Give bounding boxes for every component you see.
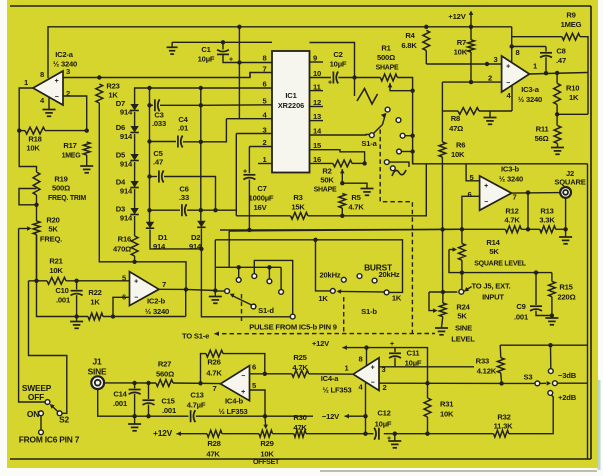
- svg-text:.001: .001: [514, 313, 529, 322]
- wire pin5 to R29 wiper: [264, 416, 267, 427]
- svg-text:16V: 16V: [254, 203, 268, 212]
- contact S1-d 4: [279, 290, 284, 295]
- wire R29-R30: [273, 433, 295, 435]
- svg-text:4.7K: 4.7K: [292, 363, 308, 372]
- svg-text:J1: J1: [93, 357, 102, 367]
- wire S1-a c4 stub: [401, 151, 412, 153]
- ground J2: [559, 236, 572, 238]
- wire R24 top: [442, 292, 444, 303]
- wire R32 right: [509, 397, 553, 434]
- svg-text:14: 14: [313, 127, 322, 136]
- dashed S1-d gang: [241, 294, 243, 324]
- wire C11 top lead: [394, 348, 396, 353]
- svg-text:2: 2: [262, 138, 266, 147]
- wire R5 bottom: [341, 208, 343, 216]
- jack J2: [560, 187, 571, 198]
- svg-text:.33: .33: [179, 193, 189, 202]
- arrowhead S2 arm: [50, 404, 55, 409]
- jack J1: [91, 376, 104, 389]
- svg-text:½ 3240: ½ 3240: [518, 95, 542, 104]
- contact S1-d 3: [267, 279, 272, 284]
- wire C8 top row: [512, 46, 546, 48]
- wire IC1 pin1 stub: [258, 163, 272, 165]
- wire R9 loop to R10/R11: [557, 113, 588, 115]
- wire R19 bottom: [36, 195, 38, 221]
- junction row-A / box left: [147, 86, 151, 90]
- svg-text:914: 914: [120, 214, 133, 223]
- svg-text:R5: R5: [351, 193, 361, 202]
- wire C1 top lead: [222, 42, 224, 49]
- wire R27 right: [173, 382, 221, 385]
- junction output / R10: [555, 71, 559, 75]
- wire R2 right: [352, 162, 365, 164]
- wire IC1 pin7 stub: [249, 73, 251, 78]
- svg-text:1K: 1K: [569, 93, 579, 102]
- svg-text:C15: C15: [161, 397, 175, 406]
- svg-text:R17: R17: [63, 141, 76, 150]
- svg-text:15K: 15K: [291, 203, 305, 212]
- wire D2 bottom to pulse contact: [201, 229, 290, 317]
- resistor R27: [156, 380, 173, 387]
- svg-text:5K: 5K: [489, 247, 499, 256]
- junction R2 wiper / R5: [340, 181, 344, 185]
- contact S1-d pulse bottom: [290, 314, 295, 319]
- wire J1 bottom row: [98, 389, 189, 416]
- resistor R11: [554, 126, 561, 144]
- resistor R18: [25, 127, 45, 134]
- wire C15 top lead: [148, 383, 150, 399]
- wire S1-a c3 stub: [405, 135, 413, 137]
- resistor R29: [259, 430, 273, 437]
- svg-text:SHAPE: SHAPE: [376, 65, 399, 72]
- wire IC3-b pin6: [462, 196, 480, 229]
- junction R21 row / R20 column: [34, 279, 38, 283]
- resistor R10: [554, 83, 561, 104]
- wire R4 bottom to IC3-a pin3 row: [425, 51, 427, 65]
- wire R8 row: [442, 110, 458, 112]
- arrowhead R1 wiper: [388, 83, 393, 87]
- wire C9 top lead: [535, 273, 537, 305]
- junction row E / C5 riser: [213, 208, 217, 212]
- svg-text:½ 3240: ½ 3240: [145, 307, 169, 316]
- diode D7: [130, 104, 138, 111]
- border frame bottom: [10, 458, 591, 460]
- svg-text:−: −: [484, 199, 488, 206]
- junction S1-d pole: [213, 288, 217, 292]
- resistor R3: [291, 212, 308, 219]
- decorative: [598, 380, 601, 470]
- wire D2 column: [200, 88, 202, 221]
- svg-text:914: 914: [120, 187, 133, 196]
- svg-text:.001: .001: [113, 399, 128, 408]
- junction row B / D2 column: [199, 103, 203, 107]
- svg-text:C9: C9: [516, 302, 525, 311]
- wire C10 row: [37, 235, 89, 317]
- svg-text:6: 6: [122, 293, 126, 302]
- junction top bus / C1 column: [237, 25, 241, 29]
- border frame right: [590, 6, 592, 459]
- wire row B left: [150, 104, 154, 106]
- svg-text:R12: R12: [505, 207, 518, 216]
- svg-text:½ 3240: ½ 3240: [499, 175, 523, 184]
- wire S1-a bus to IC3-b row: [413, 152, 588, 164]
- wire R25 right: [309, 373, 354, 375]
- svg-text:47Ω: 47Ω: [449, 124, 463, 133]
- wire R15 top: [551, 273, 553, 282]
- wire R28-R29: [222, 433, 259, 435]
- resistor R13: [540, 226, 556, 233]
- op-amp IC4-b: [221, 366, 250, 401]
- wire R13 right: [556, 228, 566, 230]
- contact S1-b 3: [357, 274, 362, 279]
- capacitor C3: [154, 99, 156, 111]
- IC1 body: [272, 51, 310, 173]
- svg-text:.01: .01: [178, 124, 189, 133]
- svg-text:10µF: 10µF: [330, 60, 347, 69]
- svg-text:−: −: [241, 373, 245, 380]
- arrowhead +12V bottom: [177, 431, 181, 436]
- wire S1-d pole stub: [215, 290, 225, 292]
- wire D1 bottom: [150, 230, 201, 249]
- wire R10 top: [556, 73, 558, 83]
- capacitor C9: [530, 305, 542, 307]
- wire row D right: [164, 177, 216, 211]
- junction -12V / pin4: [363, 414, 367, 418]
- svg-text:R7: R7: [457, 38, 466, 47]
- junction row E / D2 column: [199, 208, 203, 212]
- svg-text:6: 6: [262, 80, 266, 89]
- ground R24: [435, 327, 448, 329]
- junction R33 / pin2 row: [499, 381, 503, 385]
- svg-text:XR2206: XR2206: [278, 101, 304, 110]
- svg-text:914: 914: [120, 132, 133, 141]
- svg-text:D1: D1: [158, 233, 168, 242]
- wire R26 left loop: [201, 354, 207, 384]
- wire sweep column: [19, 229, 45, 403]
- resistor R21: [47, 277, 66, 284]
- capacitor C2: [332, 72, 334, 84]
- wire IC4-a pin4: [365, 383, 367, 434]
- wire R6 column: [441, 82, 443, 142]
- capacitor C4: [177, 136, 179, 148]
- resistor R24 trimmer: [439, 303, 446, 317]
- junction J2 / R13: [563, 227, 567, 231]
- svg-text:C1: C1: [201, 45, 211, 54]
- svg-text:C11: C11: [407, 349, 421, 358]
- wire +12V arrow stem: [470, 13, 472, 27]
- wire IC3-a pin4: [511, 86, 513, 112]
- wire C1 row: [172, 41, 272, 43]
- arrowhead -12V: [345, 414, 349, 419]
- svg-text:C10: C10: [55, 286, 68, 295]
- wire +12V to pin8 column: [471, 26, 512, 28]
- svg-text:.001: .001: [162, 406, 177, 415]
- dashed S1-b gang: [343, 297, 345, 334]
- svg-text:+12V: +12V: [153, 428, 173, 438]
- wire S1-d arm: [233, 296, 252, 305]
- wire R14 wiper loop: [449, 249, 454, 251]
- svg-text:TO J5, EXT.: TO J5, EXT.: [471, 282, 510, 291]
- svg-text:R26: R26: [207, 358, 220, 367]
- svg-text:2: 2: [488, 74, 492, 83]
- svg-text:R8: R8: [451, 114, 460, 123]
- svg-text:8: 8: [262, 54, 266, 63]
- svg-text:R22: R22: [88, 288, 101, 297]
- wire R8 ground stub: [489, 111, 491, 117]
- wire IC4-b pin6 row: [250, 373, 292, 375]
- junction C1 top: [221, 40, 225, 44]
- resistor R25: [292, 370, 309, 377]
- svg-text:3: 3: [66, 67, 70, 76]
- svg-text:D4: D4: [116, 178, 126, 187]
- svg-text:4.12K: 4.12K: [477, 367, 497, 376]
- svg-text:C2: C2: [333, 50, 342, 59]
- junction C7 / long row: [247, 228, 251, 232]
- svg-text:S1-b: S1-b: [361, 307, 377, 316]
- svg-text:914: 914: [120, 160, 133, 169]
- junction J5 row / R24 column: [441, 290, 445, 294]
- wire C9 bottom lead: [536, 311, 552, 316]
- wire C15 bottom lead: [148, 405, 150, 417]
- wire IC2-b pin6: [113, 297, 130, 316]
- svg-text:R30: R30: [293, 413, 306, 422]
- contact S2 off: [45, 400, 50, 405]
- svg-text:½ LF353: ½ LF353: [219, 407, 248, 416]
- wire R12 row mid: [462, 228, 506, 230]
- wire R24 wiper: [429, 292, 434, 311]
- svg-text:D5: D5: [116, 151, 126, 160]
- decorative page edge line: [320, 470, 597, 472]
- junction R18 left: [17, 128, 21, 132]
- svg-text:12: 12: [313, 98, 321, 107]
- wire IC1 pin13 stub: [310, 120, 324, 122]
- capacitor C1: [217, 53, 229, 55]
- contact S1-a 4: [397, 149, 402, 154]
- svg-text:IC2-a: IC2-a: [55, 50, 74, 59]
- wire J5 column: [461, 273, 463, 289]
- wire S1-d contact bar: [215, 266, 281, 268]
- wire R18 row: [19, 130, 25, 132]
- wire R33 top: [499, 345, 502, 358]
- wire right bus: [587, 164, 589, 459]
- svg-text:C8: C8: [556, 47, 565, 56]
- wire R6 bottom long column: [441, 157, 443, 291]
- wire IC3-b output: [512, 192, 561, 195]
- svg-text:10K: 10K: [49, 266, 63, 275]
- resistor R31: [424, 398, 431, 417]
- contact S1-a sine2: [390, 166, 395, 171]
- junction R7 / pin2 row: [469, 80, 473, 84]
- svg-text:+: +: [390, 341, 394, 348]
- wire IC3-a output row: [529, 73, 587, 75]
- svg-text:+12V: +12V: [448, 12, 466, 21]
- contact S1-a triangle: [385, 107, 390, 112]
- wire R9 right loop: [580, 37, 588, 115]
- svg-text:−: −: [371, 380, 375, 387]
- svg-text:5K: 5K: [457, 312, 467, 321]
- ground R2 wiper: [361, 188, 374, 190]
- wire R21 row right: [66, 280, 130, 282]
- dashed S1-a gang: [380, 129, 412, 333]
- wire C13 right: [196, 415, 313, 417]
- wire IC4-b pin5 jog: [250, 390, 266, 416]
- svg-text:R25: R25: [293, 353, 307, 362]
- svg-text:10µF: 10µF: [198, 55, 215, 64]
- svg-text:4.7K: 4.7K: [206, 369, 222, 378]
- ground R17: [80, 165, 93, 167]
- svg-text:R4: R4: [405, 31, 415, 40]
- contact S2 on: [39, 411, 44, 416]
- svg-text:SINE: SINE: [455, 324, 472, 333]
- junction R2 / pin15 jog: [362, 161, 366, 165]
- svg-text:R9: R9: [566, 11, 575, 20]
- svg-text:8: 8: [40, 70, 44, 79]
- ground R8: [484, 117, 497, 119]
- junction level row / R14: [460, 270, 464, 274]
- svg-text:R2: R2: [322, 167, 331, 176]
- wire long row drop: [228, 231, 230, 267]
- wire D6-D5: [134, 134, 136, 154]
- junction output / C8: [544, 71, 548, 75]
- wire R3 row left: [236, 215, 290, 217]
- svg-text:R6: R6: [456, 141, 465, 150]
- svg-text:+: +: [241, 389, 245, 396]
- svg-text:R24: R24: [456, 303, 470, 312]
- wire IC3-a pin2 row: [442, 81, 501, 83]
- arrowhead S1-d arm: [230, 294, 235, 298]
- wire R24 bottom: [442, 317, 443, 328]
- junction box-left / row C: [147, 139, 151, 143]
- resistor R5: [339, 194, 346, 209]
- contact +2dB: [548, 391, 553, 396]
- wire S1-a arm: [374, 125, 383, 134]
- arrowhead S1-b arm: [337, 289, 342, 294]
- svg-text:3: 3: [493, 55, 497, 64]
- arrowhead R14 wiper: [453, 247, 457, 252]
- svg-text:D3: D3: [116, 205, 125, 214]
- svg-text:+: +: [371, 365, 375, 372]
- wire S1-d pulse contact riser: [254, 260, 292, 314]
- op-amp IC2-a: [33, 71, 63, 105]
- ground C1 row: [167, 46, 178, 48]
- wire IC1 pin14 row to S1-a pole: [310, 133, 371, 136]
- wire C10 top lead: [76, 281, 78, 290]
- svg-text:8: 8: [358, 355, 362, 364]
- wire diode string top row: [135, 88, 272, 104]
- svg-text:S1-d: S1-d: [258, 306, 274, 315]
- arrowhead S1-a arm: [381, 113, 386, 118]
- contact S1-a 3: [400, 133, 405, 138]
- svg-text:IC2-b: IC2-b: [147, 297, 166, 306]
- svg-text:10K: 10K: [260, 450, 274, 459]
- svg-text:R16: R16: [118, 235, 131, 244]
- wire +2dB drop: [552, 395, 554, 400]
- svg-text:−: −: [55, 94, 59, 101]
- svg-text:.47: .47: [153, 158, 163, 167]
- resistor R8: [458, 108, 479, 115]
- junction D1/D2 bar: [199, 247, 203, 251]
- wire C1 row ground stub: [171, 42, 173, 47]
- wire IC2-a pin2 row: [63, 96, 87, 131]
- wire IC1 pin12 stub: [310, 106, 324, 108]
- resistor R28: [207, 430, 222, 437]
- svg-text:R27: R27: [158, 360, 171, 369]
- diode D4: [130, 181, 138, 188]
- svg-text:ON: ON: [27, 409, 39, 419]
- wire IC1 pin11 stub: [310, 90, 324, 92]
- svg-text:5K: 5K: [48, 225, 58, 234]
- diode D2: [197, 221, 205, 228]
- svg-text:R18: R18: [28, 135, 41, 144]
- svg-text:1MEG: 1MEG: [62, 153, 82, 160]
- svg-text:R20: R20: [46, 216, 59, 225]
- arrowhead to J5: [464, 287, 469, 291]
- svg-text:R3: R3: [293, 193, 302, 202]
- resistor R32: [494, 430, 509, 437]
- wire S3 mid to right: [557, 382, 587, 384]
- wire R21 row: [29, 280, 48, 282]
- wire bottom row: [177, 433, 208, 435]
- resistor R33: [497, 358, 504, 373]
- wire IC2-a pin1 to left column: [19, 88, 36, 172]
- arrowhead R2 wiper: [340, 169, 345, 173]
- svg-text:1MEG: 1MEG: [561, 20, 582, 29]
- svg-text:15: 15: [313, 141, 322, 150]
- wire R2 wiper: [341, 169, 343, 183]
- svg-text:+: +: [243, 169, 247, 176]
- resistor R15: [549, 281, 556, 296]
- contact S1-b left: [330, 289, 335, 294]
- svg-text:8: 8: [515, 48, 519, 57]
- svg-text:10: 10: [313, 69, 321, 78]
- wire pin3 column to R3 row: [235, 134, 237, 216]
- svg-text:+2dB: +2dB: [558, 393, 577, 402]
- op-amp IC3-b: [480, 176, 512, 210]
- svg-text:1000µF: 1000µF: [249, 194, 274, 203]
- svg-text:R33: R33: [476, 357, 489, 366]
- svg-text:R14: R14: [486, 238, 500, 247]
- wire R31 bottom: [427, 417, 429, 434]
- svg-text:7: 7: [212, 384, 216, 393]
- junction burst row / 1K-left riser: [313, 238, 317, 242]
- resistor R16: [131, 236, 138, 256]
- contact S2 arm: [57, 411, 62, 416]
- contact S1-b 4: [372, 278, 377, 283]
- wire R1 right corner: [397, 78, 412, 164]
- arrowhead +12V IC4a: [343, 345, 347, 350]
- svg-text:R13: R13: [540, 207, 553, 216]
- wire R12-R13 row: [521, 228, 540, 230]
- border frame top: [10, 5, 591, 7]
- svg-text:C13: C13: [190, 391, 203, 400]
- wire R22 right: [103, 316, 186, 318]
- wire R26 right loop: [223, 354, 265, 374]
- wire IC4-a pin2 row: [379, 382, 502, 384]
- junction R19 bottom: [34, 203, 38, 207]
- pole S1-a: [369, 133, 374, 138]
- wire output to R12 row: [527, 193, 529, 230]
- junction IC2-b output: [184, 287, 188, 291]
- resistor R19 trimmer: [33, 172, 40, 195]
- pole S1-d: [225, 289, 230, 294]
- wire top jog over IC1: [310, 43, 355, 78]
- wire R8 right: [479, 110, 512, 112]
- junction R21 row / C10: [74, 279, 78, 283]
- wire C8 bottom lead: [545, 57, 547, 72]
- capacitor C14: [129, 389, 141, 391]
- svg-text:+: +: [506, 64, 510, 71]
- wire long row to R12 net: [220, 228, 462, 231]
